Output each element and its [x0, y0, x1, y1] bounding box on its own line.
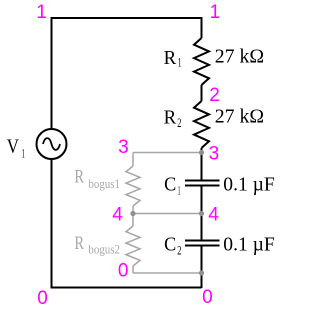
svg-text:1: 1: [36, 2, 47, 23]
svg-text:C: C: [164, 174, 176, 196]
wire left from node 1 down to V1 top: [51, 17, 53, 129]
gray wire node 4 horizontal: [133, 213, 202, 215]
svg-text:1: 1: [22, 146, 25, 161]
resistor Rbogus1 zigzag: [126, 166, 140, 206]
junction dot node 3: [199, 150, 204, 155]
svg-text:4: 4: [208, 205, 219, 226]
svg-text:0.1 µF: 0.1 µF: [223, 234, 274, 256]
svg-text:1: 1: [210, 2, 221, 23]
junction dot node 0 right: [199, 270, 204, 275]
junction dot node 4 right: [199, 211, 204, 216]
svg-text:27 kΩ: 27 kΩ: [215, 46, 264, 68]
svg-text:0: 0: [118, 261, 129, 282]
svg-text:4: 4: [112, 205, 123, 226]
junction dot node 4 left: [130, 211, 135, 216]
svg-text:bogus1: bogus1: [88, 177, 120, 191]
svg-text:C: C: [164, 234, 176, 256]
svg-text:R: R: [74, 167, 84, 188]
svg-text:2: 2: [177, 243, 181, 258]
svg-text:bogus2: bogus2: [88, 242, 120, 256]
svg-text:2: 2: [209, 85, 220, 106]
wire bottom from node 0 left to node 0 right: [51, 287, 202, 289]
capacitor C1 top plate: [185, 180, 220, 182]
svg-text:R: R: [164, 47, 177, 69]
svg-text:V: V: [7, 136, 20, 158]
capacitor C2 top plate: [185, 240, 220, 242]
wire left from V1 bottom to node 0: [51, 159, 53, 288]
svg-text:0.1 µF: 0.1 µF: [223, 174, 274, 196]
gray wire node 3 horizontal: [133, 152, 202, 154]
gray wire node 0 horizontal: [133, 272, 202, 274]
resistor Rbogus2 zigzag: [126, 226, 140, 266]
svg-text:0: 0: [202, 287, 213, 308]
svg-text:R: R: [164, 106, 177, 128]
wire R2 bottom to C1 top plate through node 3: [201, 148, 203, 180]
wire top from node 1 left to node 1 right: [52, 17, 202, 19]
resistor R1 zigzag: [194, 38, 209, 85]
svg-text:3: 3: [118, 137, 129, 158]
wire right from node 1 to R1 top: [201, 17, 203, 38]
svg-text:3: 3: [209, 144, 220, 165]
capacitor C1 bottom plate: [185, 185, 220, 187]
gray wire node 4 down to Rbogus2: [132, 214, 134, 227]
V1 sine symbol: [43, 138, 60, 150]
gray wire Rbogus1 bottom to node 4: [132, 206, 134, 214]
gray wire Rbogus2 bottom to node 0: [132, 266, 134, 273]
resistor R2 zigzag: [194, 101, 209, 148]
capacitor C2 bottom plate: [185, 245, 220, 247]
svg-text:27 kΩ: 27 kΩ: [215, 106, 264, 128]
svg-text:R: R: [74, 233, 84, 254]
wire C1 to C2 through node 4: [201, 186, 203, 240]
voltage source V1 circle: [37, 129, 67, 159]
svg-text:1: 1: [178, 183, 181, 198]
svg-text:0: 0: [37, 288, 48, 309]
wire C2 bottom to node 0: [201, 246, 203, 288]
wire node 2 between R1 and R2: [201, 85, 203, 101]
svg-text:2: 2: [177, 115, 181, 130]
gray wire node 3 down to Rbogus1: [132, 153, 134, 167]
svg-text:1: 1: [178, 55, 182, 70]
